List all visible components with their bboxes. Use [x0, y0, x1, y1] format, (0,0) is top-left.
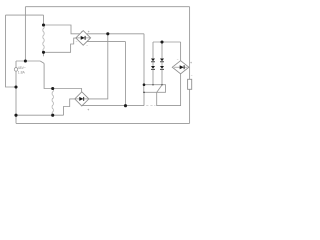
node bus1 left junction — [14, 114, 17, 117]
junction dots — [14, 23, 163, 116]
bridge rectifier B1 body — [76, 31, 91, 46]
wire relay contact riser to bridge B3 bottom — [157, 74, 181, 106]
node relay box top-left junction — [143, 83, 146, 86]
bridge rectifier B3 body — [172, 61, 189, 74]
svg-text:~: ~ — [86, 43, 88, 47]
node L2 top junction — [51, 87, 54, 90]
wire diode column 1 segments — [152, 42, 154, 85]
wire y=15 horizontal — [6, 14, 44, 16]
wire bridge B1 ac2 pin right — [87, 41, 126, 43]
wire bridge B2 left pin to bus1 — [64, 99, 75, 115]
wire diode column 2 segments — [161, 42, 163, 85]
wire x=43.5 drop to L1 — [43, 15, 45, 25]
wire node to bridge B2 right pin — [89, 34, 108, 99]
relay K1 coil box — [144, 85, 166, 93]
node L2 bottom junction — [51, 114, 54, 117]
svg-text:1.8A: 1.8A — [18, 70, 26, 74]
bridge rectifier B2 body — [75, 92, 89, 106]
bridge B2 internal diode — [75, 97, 88, 101]
bridge B3 internal diode — [174, 65, 187, 69]
wire source top lead — [15, 61, 17, 68]
node B1 plus net junction — [106, 32, 109, 35]
wire x=144 down to lower net corner — [143, 34, 145, 106]
wire x=125.5 down to node — [125, 42, 127, 106]
diode D3 column2 upper — [160, 59, 164, 62]
relay linkage dashes — [146, 104, 155, 106]
node relay box bottom-left junction — [143, 92, 145, 94]
node diode column2 bottom junction — [161, 84, 163, 86]
node diode column1 bottom junction — [152, 84, 154, 86]
wire y=42 top of diode chain — [153, 41, 181, 43]
wire L2 top to bridge B2 top pin — [53, 89, 82, 92]
switch S1 top contact stub — [43, 52, 45, 56]
resistor R1 body — [188, 79, 192, 89]
wire right rail lower — [189, 89, 191, 123]
svg-text:+: + — [88, 30, 90, 34]
svg-text:+: + — [190, 61, 192, 65]
node dc minus net junction — [124, 104, 127, 107]
svg-text:~: ~ — [177, 57, 179, 61]
inductor L2 winding — [52, 89, 53, 116]
node diode chain top junction — [160, 40, 163, 43]
node L1 top junction — [42, 23, 45, 26]
node ac branch junction — [24, 59, 27, 62]
wire switch down to L2 top node — [44, 63, 53, 88]
switch S1 blade — [40, 61, 44, 63]
wire top bus — [25, 6, 189, 8]
svg-text:+: + — [87, 108, 89, 112]
svg-text:~: ~ — [81, 29, 83, 33]
diode D2 column1 lower — [151, 66, 155, 69]
node left rail junction — [14, 85, 17, 88]
node L1 bottom junction — [42, 51, 45, 54]
svg-text:~: ~ — [191, 73, 193, 77]
wire L1 top to bridge B1 ac1 pin — [44, 25, 80, 34]
inductor L1 winding — [43, 25, 44, 52]
wire L1 bottom to bridge B1 minus pin — [44, 38, 77, 52]
diode D4 column2 lower — [160, 66, 164, 69]
wire y=61 from source to switch — [16, 60, 40, 62]
svg-text:~: ~ — [76, 40, 78, 44]
wire bottom bus — [16, 122, 190, 124]
wire bridge B3 top riser — [180, 42, 182, 61]
AC source V1 circle — [14, 68, 18, 72]
relay K1 contact blade — [157, 86, 162, 93]
diode D1 column1 upper — [151, 59, 155, 62]
wire bus1 y=115.2 — [16, 114, 64, 116]
wire bridge B2 bottom pin to x=144 riser — [82, 105, 144, 107]
wire left outer down then right to node — [6, 15, 17, 87]
wire left branch vertical x=25 — [24, 7, 26, 61]
wire source bottom lead down left rail — [15, 71, 17, 123]
wire right rail upper — [189, 7, 191, 80]
bridge B1 internal diode — [77, 36, 91, 40]
wire bridge B1 plus pin to relay feed — [87, 33, 144, 35]
